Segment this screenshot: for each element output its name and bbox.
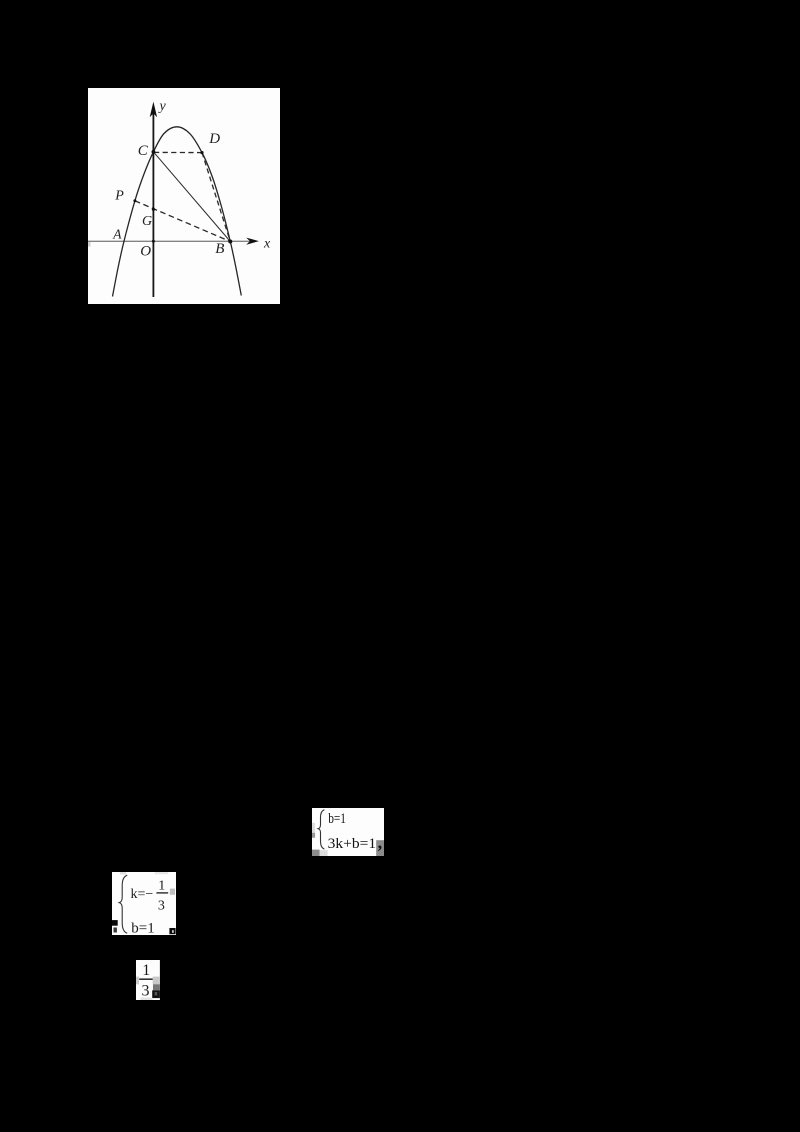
bottom-left smudges: [312, 849, 319, 856]
left gray strip: [136, 976, 139, 984]
parabola: [113, 127, 242, 297]
left edge smudges: [312, 822, 315, 832]
y-axis arrowhead: [150, 102, 157, 118]
equation block 2: system k=-1/3, b=1: [112, 872, 176, 935]
svg-text:,: ,: [377, 832, 382, 852]
right light gray block: [153, 976, 160, 984]
svg-text:D: D: [208, 131, 220, 147]
fraction bar: [156, 892, 168, 893]
svg-text:C: C: [138, 143, 149, 159]
solid segment C to B: [153, 152, 230, 242]
point P dot: [133, 199, 136, 202]
dashed segment P to B through G: [135, 201, 230, 242]
svg-text:3: 3: [141, 982, 149, 999]
svg-text:3k+b=1: 3k+b=1: [327, 835, 375, 851]
svg-text:3: 3: [158, 898, 165, 913]
bottom-left black blob: [112, 920, 118, 926]
svg-text:1: 1: [142, 962, 150, 979]
svg-text:y: y: [158, 99, 167, 114]
equation block 1: system b=1, 3k+b=1: [312, 808, 384, 856]
top edge smudges: [120, 872, 126, 875]
edge smudge left of x-axis: [88, 242, 91, 247]
svg-text:P: P: [114, 189, 124, 204]
bottom strip: [140, 997, 152, 1000]
figure: coordinate-plane graph panel: [88, 88, 280, 304]
point B dot: [228, 240, 232, 244]
dark comma block: [152, 990, 160, 998]
svg-text:b=1: b=1: [328, 810, 346, 826]
figure white background: [88, 88, 280, 304]
svg-text:A: A: [112, 226, 122, 241]
brace: [318, 809, 324, 848]
svg-text:B: B: [215, 241, 224, 257]
x-axis arrowhead: [246, 238, 259, 245]
point G dot on y-axis: [152, 208, 155, 211]
point D dot: [200, 151, 203, 154]
dashed chord C to D: [154, 151, 202, 153]
x-axis: [88, 240, 250, 242]
svg-text:G: G: [142, 214, 152, 229]
svg-text:1: 1: [158, 878, 165, 893]
bottom-right smudge square: [376, 840, 384, 856]
dashed chord D to B: [202, 153, 230, 242]
y-axis: [152, 112, 154, 297]
svg-text:x: x: [263, 237, 271, 252]
right mid gray block: [153, 984, 160, 990]
svg-text:O: O: [140, 243, 151, 259]
svg-text:k=−: k=−: [130, 887, 153, 902]
fraction bar: [139, 978, 152, 980]
point C dot: [152, 150, 156, 154]
bottom-right black blob with white comma: [169, 928, 175, 934]
svg-text:b=1: b=1: [131, 921, 154, 936]
brace: [119, 875, 127, 933]
equation block 3: fraction 1/3: [136, 960, 160, 1000]
origin dot: [152, 240, 155, 243]
right gray square: [170, 889, 175, 895]
